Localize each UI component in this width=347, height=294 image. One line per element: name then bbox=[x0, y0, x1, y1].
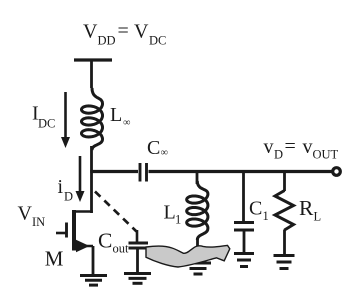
svg-text:V: V bbox=[134, 21, 149, 43]
transistor M drain wire bbox=[73, 210, 93, 213]
ground at C_out bbox=[124, 272, 151, 275]
transistor M source wire with arrow bbox=[74, 245, 93, 248]
current arrow i_D bbox=[79, 156, 82, 193]
svg-text:V: V bbox=[18, 203, 33, 225]
svg-text:C: C bbox=[147, 137, 160, 159]
wire node to C1 bbox=[242, 170, 245, 222]
svg-text:∞: ∞ bbox=[123, 118, 131, 129]
transistor M channel bbox=[72, 210, 76, 251]
ground at C1 bbox=[234, 252, 254, 255]
svg-text:IN: IN bbox=[32, 215, 45, 229]
svg-text:v: v bbox=[264, 136, 274, 158]
capacitor C1 plates bbox=[234, 221, 254, 224]
current arrow I_DC bbox=[64, 92, 67, 139]
dashed wire drain to C_out bbox=[95, 192, 137, 232]
svg-text:out: out bbox=[113, 242, 130, 256]
svg-text:DC: DC bbox=[149, 34, 166, 48]
svg-text:∞: ∞ bbox=[161, 148, 169, 159]
gray annotation arrow bbox=[146, 245, 230, 267]
wire RL to ground bbox=[283, 230, 286, 256]
wire node to C_inf bbox=[90, 170, 138, 173]
capacitor C_out top stub bbox=[136, 230, 139, 243]
wire node to RL bbox=[283, 170, 286, 191]
wire L_inf to drain node bbox=[90, 146, 93, 213]
wire supply to L_inf bbox=[90, 60, 93, 88]
inductor L_inf bbox=[82, 88, 103, 150]
svg-text:=: = bbox=[118, 20, 129, 42]
svg-text:1: 1 bbox=[263, 209, 269, 223]
svg-text:V: V bbox=[83, 21, 98, 43]
wire L1 to ground bbox=[196, 238, 199, 263]
svg-text:L: L bbox=[110, 104, 122, 126]
svg-text:R: R bbox=[299, 196, 314, 220]
ground at L1 bbox=[185, 262, 211, 265]
wire source to ground bbox=[92, 246, 95, 276]
svg-text:C: C bbox=[98, 229, 112, 253]
wire C1 to ground bbox=[243, 231, 246, 254]
svg-text:M: M bbox=[45, 247, 64, 271]
resistor RL zigzag bbox=[275, 191, 294, 231]
svg-text:D: D bbox=[64, 190, 73, 204]
svg-text:C: C bbox=[249, 198, 262, 220]
svg-text:DD: DD bbox=[98, 34, 116, 48]
svg-text:1: 1 bbox=[175, 213, 181, 227]
svg-text:DC: DC bbox=[38, 117, 55, 131]
svg-text:i: i bbox=[58, 176, 64, 198]
transistor M gate plate bbox=[65, 223, 68, 238]
inductor L1 bbox=[187, 181, 208, 240]
transistor M gate lead from V_IN bbox=[56, 232, 67, 235]
wire C_out to ground bbox=[136, 249, 139, 274]
svg-text:v: v bbox=[303, 136, 313, 158]
svg-text:=: = bbox=[285, 136, 296, 158]
svg-text:L: L bbox=[314, 210, 322, 224]
capacitor C_out plates bbox=[129, 242, 149, 245]
ground at source bbox=[80, 274, 107, 277]
capacitor C_inf bbox=[139, 163, 142, 182]
wire C_inf to output bbox=[149, 170, 333, 173]
svg-text:OUT: OUT bbox=[313, 148, 339, 162]
power supply rail VDD bbox=[74, 58, 112, 61]
wire node to L1 bbox=[196, 170, 199, 184]
svg-text:L: L bbox=[164, 202, 176, 224]
svg-text:D: D bbox=[274, 148, 283, 162]
ground at RL bbox=[274, 254, 295, 257]
output terminal bbox=[333, 168, 341, 176]
